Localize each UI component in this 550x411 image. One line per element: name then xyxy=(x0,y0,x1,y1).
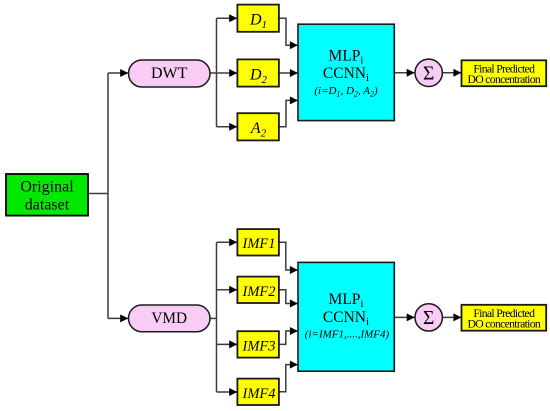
svg-text:(i=D1, D2, A2): (i=D1, D2, A2) xyxy=(314,85,378,99)
svg-text:Σ: Σ xyxy=(423,308,434,329)
svg-text:MLPi: MLPi xyxy=(329,48,364,67)
svg-text:VMD: VMD xyxy=(151,310,187,327)
svg-text:DO concentration: DO concentration xyxy=(468,318,541,331)
svg-text:MLPi: MLPi xyxy=(329,291,364,310)
svg-text:IMF2: IMF2 xyxy=(241,284,275,300)
svg-text:Original: Original xyxy=(20,179,74,196)
svg-text:CCNNi: CCNNi xyxy=(323,65,369,84)
svg-text:Σ: Σ xyxy=(423,64,434,85)
svg-text:IMF1: IMF1 xyxy=(241,236,275,252)
svg-text:(i=IMF1,....,IMF4): (i=IMF1,....,IMF4) xyxy=(305,329,390,341)
svg-text:DWT: DWT xyxy=(151,65,188,82)
svg-text:CCNNi: CCNNi xyxy=(323,309,369,328)
svg-text:IMF4: IMF4 xyxy=(241,386,275,402)
svg-text:dataset: dataset xyxy=(25,197,70,214)
svg-text:IMF3: IMF3 xyxy=(241,338,275,354)
svg-text:DO concentration: DO concentration xyxy=(468,73,541,86)
